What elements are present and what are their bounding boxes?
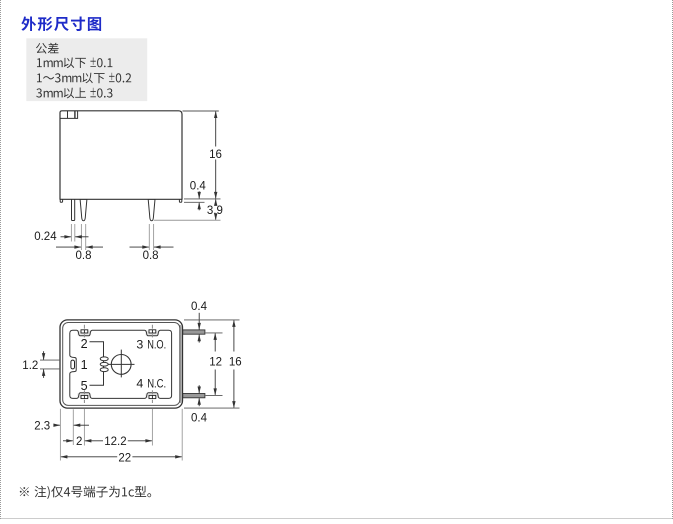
extension lines below case bbox=[59, 409, 61, 461]
dimension 2 (slot to pin column) bbox=[63, 440, 73, 442]
pin recess shading bbox=[78, 331, 92, 336]
dimension 12 (terminal spacing) bbox=[206, 332, 223, 334]
svg-text:3: 3 bbox=[136, 337, 143, 351]
tolerance note box bbox=[26, 38, 147, 101]
relay case side view outline bbox=[60, 111, 182, 200]
svg-text:1: 1 bbox=[81, 358, 88, 372]
tolerance text line4 bbox=[36, 88, 112, 99]
svg-text:22: 22 bbox=[118, 452, 131, 464]
svg-text:2: 2 bbox=[76, 436, 82, 448]
relay case bottom view, outer outline bbox=[60, 320, 183, 408]
left standoff foot bbox=[60, 199, 62, 202]
page title 外形尺寸图 bbox=[21, 17, 101, 32]
contact pin right, side view bbox=[148, 199, 155, 221]
pin centre dash lines bbox=[83, 325, 85, 338]
svg-text:1.2: 1.2 bbox=[22, 360, 38, 372]
pin 2 pad (coil) bbox=[81, 330, 88, 333]
vent mark box on case top-left bbox=[60, 111, 78, 119]
tolerance text line3 bbox=[37, 73, 131, 84]
extension line from case bottom bbox=[184, 198, 221, 200]
svg-text:0.8: 0.8 bbox=[76, 250, 92, 262]
dimension 0.8 (left contact pin width) bbox=[56, 246, 81, 248]
tolerance text line1 公差 bbox=[36, 43, 59, 54]
dimension 12.2 (pin column spacing) bbox=[85, 440, 103, 442]
svg-text:0.4: 0.4 bbox=[190, 180, 207, 192]
contact pin left, side view bbox=[80, 199, 87, 221]
dimension 3.9 (pin length) bbox=[215, 199, 217, 204]
pin 5 pad (coil) bbox=[81, 395, 88, 398]
coil symbol bbox=[100, 357, 108, 361]
svg-text:2: 2 bbox=[81, 337, 88, 351]
svg-text:12.2: 12.2 bbox=[104, 436, 126, 448]
relay case bottom view, inner outline bbox=[63, 323, 180, 406]
dimension 0.8 (right contact pin width) bbox=[130, 246, 149, 248]
pin width extension lines bbox=[70, 224, 72, 242]
footnote 注)仅4号端子为1c型 bbox=[20, 486, 151, 499]
coil bracket linking pins 2 and 5 bbox=[90, 342, 104, 386]
terminal 4 tab (right bottom) bbox=[183, 394, 205, 398]
svg-text:0.4: 0.4 bbox=[191, 301, 208, 313]
coil pin thin, side view bbox=[72, 199, 75, 220]
right standoff foot bbox=[179, 199, 181, 202]
svg-text:16: 16 bbox=[209, 149, 222, 161]
dimension 22 (case length) bbox=[60, 455, 67, 458]
svg-text:2.3: 2.3 bbox=[34, 420, 50, 432]
terminal 3 tab (right top) bbox=[183, 330, 205, 334]
extension line from standoff bottom bbox=[184, 201, 205, 203]
pin 1 slot (oval) bbox=[71, 360, 75, 369]
svg-text:12: 12 bbox=[209, 357, 222, 369]
svg-text:0.24: 0.24 bbox=[34, 231, 57, 243]
pin 4 pad (N.C. contact) bbox=[149, 395, 156, 398]
extension line from case top bbox=[183, 110, 219, 112]
dimension 1.2 (slot width) bbox=[40, 359, 60, 361]
movable contact circle with cross bbox=[108, 363, 135, 365]
pin 3 pad (N.O. contact) bbox=[149, 330, 156, 333]
svg-text:N.O.: N.O. bbox=[147, 337, 166, 351]
dimension 0.4 (bottom terminal thickness) bbox=[198, 385, 200, 393]
svg-text:0.8: 0.8 bbox=[143, 250, 159, 262]
dimension 16 (case width bottom view) bbox=[184, 319, 240, 321]
svg-text:5: 5 bbox=[81, 379, 88, 393]
tolerance text line2 bbox=[37, 58, 112, 69]
inner panel outline with pin notches bbox=[70, 330, 172, 398]
dimension 16 (case height) bbox=[215, 112, 217, 147]
svg-text:N.C.: N.C. bbox=[147, 376, 166, 390]
svg-text:16: 16 bbox=[229, 357, 242, 369]
case edge shading right side bbox=[179, 325, 181, 403]
svg-text:4: 4 bbox=[136, 376, 143, 390]
svg-text:0.4: 0.4 bbox=[191, 412, 208, 424]
extension line at pin tips bbox=[154, 219, 221, 221]
